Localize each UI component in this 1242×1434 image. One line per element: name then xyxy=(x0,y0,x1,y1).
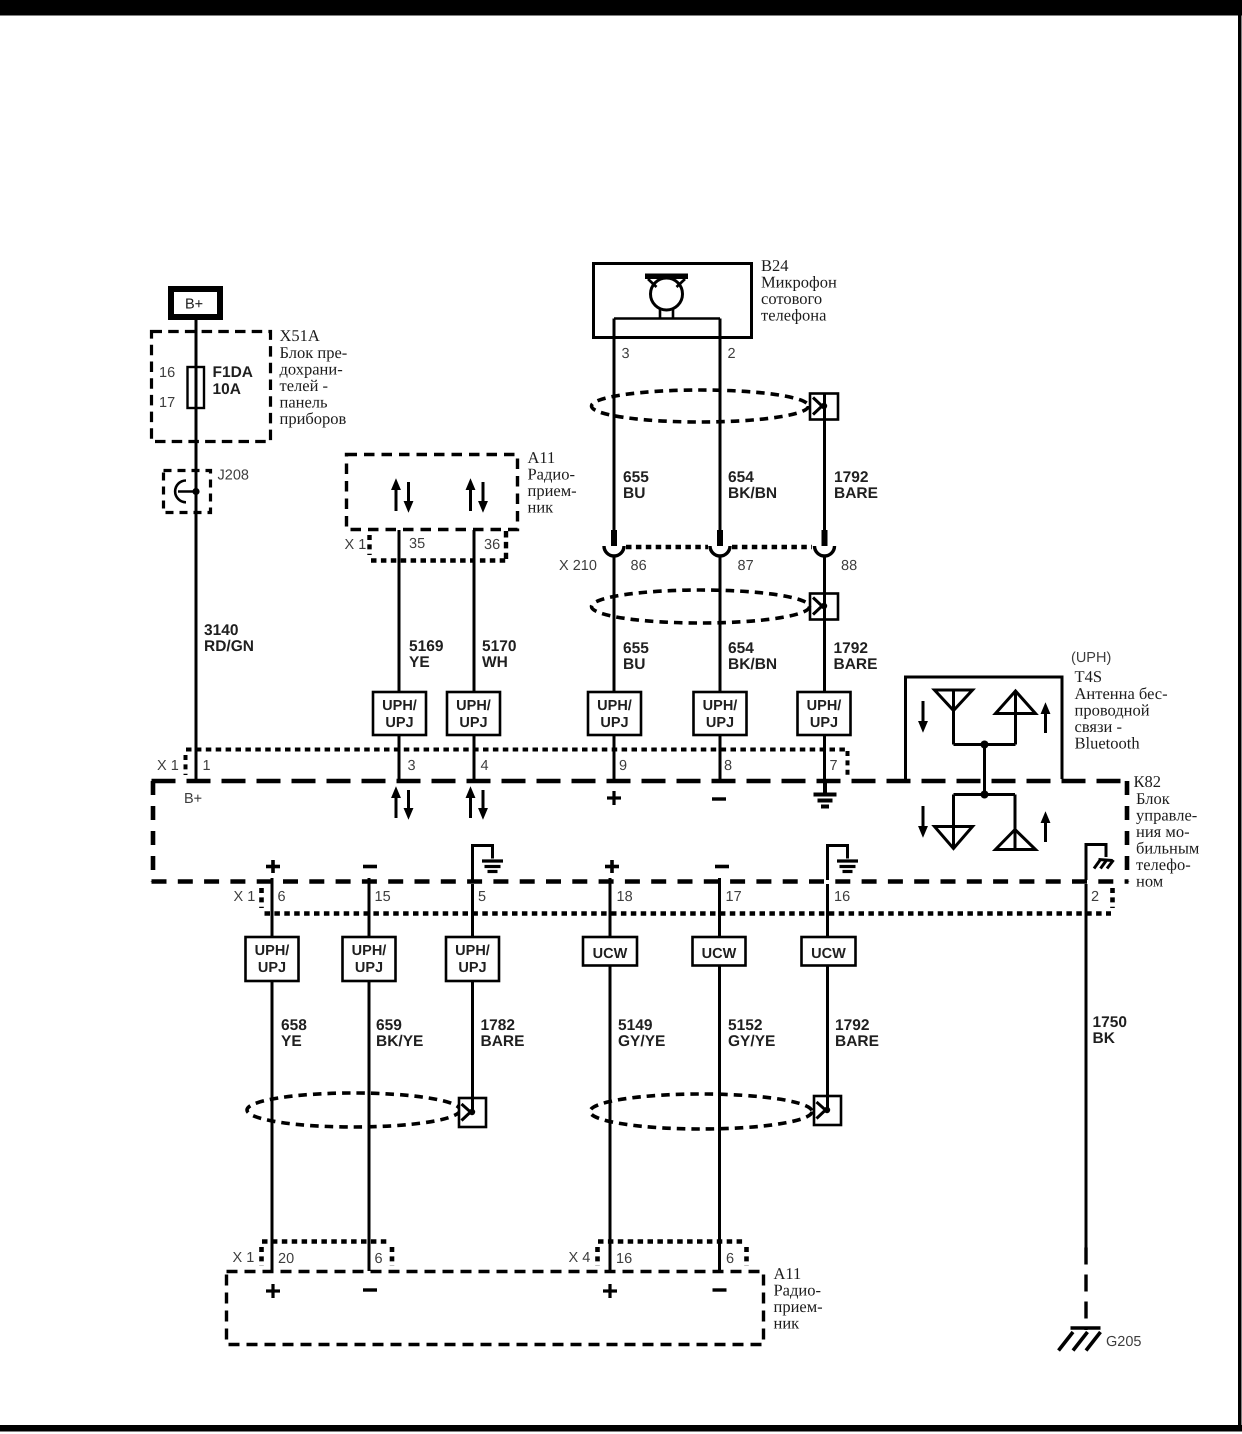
K82 arrows (pin 4) xyxy=(466,788,487,819)
svg-text:UPH/: UPH/ xyxy=(703,698,738,714)
ground hook symbol (pin 16) xyxy=(828,846,859,881)
svg-text:4: 4 xyxy=(481,758,489,774)
label T4S antenna xyxy=(1075,667,1168,753)
UPH/UPJ tag (wire 5170) xyxy=(447,692,500,735)
svg-text:659: 659 xyxy=(376,1017,402,1034)
connector X210 pin 86 xyxy=(604,530,624,556)
antenna feed line and junctions xyxy=(954,745,1016,795)
svg-text:17: 17 xyxy=(726,889,742,905)
svg-text:658: 658 xyxy=(281,1017,307,1034)
svg-text:2: 2 xyxy=(1091,889,1099,905)
right border line xyxy=(1238,0,1242,1431)
label K82 xyxy=(1134,772,1200,891)
svg-text:10A: 10A xyxy=(213,381,241,398)
T4S transmit antenna symbol (upper) xyxy=(996,691,1036,745)
svg-text:8: 8 xyxy=(724,758,732,774)
K82 arrows (pin 3) xyxy=(392,788,413,819)
wire 658 YE (K82 pin 6 to radio) xyxy=(271,878,274,1271)
shield ellipse (phone pair, right) xyxy=(590,1094,812,1129)
svg-text:5170: 5170 xyxy=(482,638,516,655)
svg-text:ном: ном xyxy=(1136,872,1164,891)
svg-text:Bluetooth: Bluetooth xyxy=(1075,734,1141,753)
svg-text:BK: BK xyxy=(1093,1030,1116,1047)
K82 receive antenna symbol (lower) xyxy=(935,795,973,849)
label A11 radio (bottom) xyxy=(774,1264,823,1333)
A11 bidirectional arrows (pin 35) xyxy=(392,480,413,512)
svg-text:ник: ник xyxy=(774,1314,801,1333)
wire 1782 BARE (K82 pin 5 shield drain) xyxy=(471,884,474,1112)
T4S up arrow (upper) xyxy=(1041,704,1049,734)
svg-text:6: 6 xyxy=(278,889,286,905)
svg-text:UPH/: UPH/ xyxy=(597,698,632,714)
antenna T4S (Bluetooth wireless antenna) xyxy=(906,677,1063,779)
svg-text:UPH/: UPH/ xyxy=(255,943,290,959)
svg-text:J208: J208 xyxy=(218,468,249,484)
ground symbol (pin 7) xyxy=(814,781,837,807)
svg-text:88: 88 xyxy=(841,558,857,574)
connector X4 of radio (bottom right) xyxy=(598,1242,747,1267)
svg-text:1792: 1792 xyxy=(834,640,868,657)
label B24 microphone cellular phone xyxy=(761,256,837,325)
svg-text:X 1: X 1 xyxy=(234,889,256,905)
svg-text:6: 6 xyxy=(375,1251,383,1267)
minus symbol (pin 17) xyxy=(715,865,729,869)
radio A11 (top) xyxy=(347,455,518,530)
svg-text:GY/YE: GY/YE xyxy=(728,1033,775,1050)
svg-text:5149: 5149 xyxy=(618,1017,653,1034)
svg-text:YE: YE xyxy=(281,1033,302,1050)
svg-text:15: 15 xyxy=(375,889,391,905)
UPH/UPJ tag (wire 655) xyxy=(588,692,641,735)
svg-text:16: 16 xyxy=(159,365,175,381)
svg-text:B+: B+ xyxy=(184,791,202,807)
svg-text:UCW: UCW xyxy=(593,946,628,962)
UCW tag (wire 5149) xyxy=(583,937,637,966)
plus symbol (radio pin 20) xyxy=(266,1284,280,1298)
svg-text:86: 86 xyxy=(631,558,647,574)
connector X210 pin 87 xyxy=(710,530,730,556)
svg-text:UPH/: UPH/ xyxy=(807,698,842,714)
wire 5169 YE (radio pin 35 to K82 pin 3) xyxy=(398,530,401,779)
svg-text:5: 5 xyxy=(478,889,486,905)
svg-text:UPJ: UPJ xyxy=(706,715,734,731)
shield drain box (left lower) xyxy=(459,1098,486,1127)
svg-text:1: 1 xyxy=(203,758,211,774)
plus symbol (pin 6) xyxy=(266,860,280,873)
wire 5170 WH (radio pin 36 to K82 pin 4) xyxy=(473,530,476,779)
wire 654 BK/BN (mic pin 2) xyxy=(719,319,722,531)
bottom border bar xyxy=(0,1425,1242,1432)
svg-text:UPJ: UPJ xyxy=(258,960,286,976)
svg-text:5152: 5152 xyxy=(728,1017,762,1034)
svg-text:GY/YE: GY/YE xyxy=(618,1033,665,1050)
UPH/UPJ tag (wire 1792) xyxy=(798,692,851,735)
svg-text:6: 6 xyxy=(726,1251,734,1267)
wire 1792 BARE (K82 pin 16 shield drain) xyxy=(826,884,829,1110)
wire 1750 BK (K82 pin 2 to G205) xyxy=(1085,884,1088,1248)
svg-text:3: 3 xyxy=(622,346,630,362)
svg-text:BARE: BARE xyxy=(481,1033,525,1050)
svg-text:(UPH): (UPH) xyxy=(1071,650,1111,666)
svg-text:UPH/: UPH/ xyxy=(352,943,387,959)
svg-text:UPJ: UPJ xyxy=(458,960,486,976)
svg-text:655: 655 xyxy=(623,469,649,486)
svg-text:UPJ: UPJ xyxy=(385,715,413,731)
plus symbol (radio pin 16) xyxy=(603,1284,617,1298)
svg-text:1792: 1792 xyxy=(834,469,868,486)
connector X1 of K82 (lower row) xyxy=(262,888,1113,914)
svg-text:2: 2 xyxy=(728,346,736,362)
ground G205 xyxy=(1059,1328,1101,1351)
svg-text:телефона: телефона xyxy=(761,306,827,325)
svg-text:BK/BN: BK/BN xyxy=(728,485,777,502)
svg-text:UCW: UCW xyxy=(702,946,737,962)
K82 transmit antenna symbol (lower) xyxy=(996,795,1036,850)
svg-text:18: 18 xyxy=(617,889,633,905)
svg-text:ник: ник xyxy=(528,498,555,517)
svg-text:F1DA: F1DA xyxy=(213,364,253,381)
wire 1792 BARE (below X210) xyxy=(823,556,826,692)
T4S down arrow (upper) xyxy=(919,701,927,732)
module K82 (mobile phone control module) xyxy=(152,781,1129,882)
svg-text:BK/YE: BK/YE xyxy=(376,1033,423,1050)
svg-text:YE: YE xyxy=(409,654,430,671)
svg-text:UPH/: UPH/ xyxy=(455,943,490,959)
UPH/UPJ tag (wire 1782) xyxy=(446,937,499,981)
wire 654 BK/BN (below X210) xyxy=(719,556,722,692)
connector X1 of K82 (upper row) xyxy=(186,750,849,779)
fuse block X51A xyxy=(152,332,271,442)
ground hook symbol (pin 5) xyxy=(473,846,504,881)
svg-text:UPH/: UPH/ xyxy=(456,698,491,714)
UCW tag (wire 5152) xyxy=(693,937,746,966)
svg-text:17: 17 xyxy=(159,395,175,411)
svg-text:1750: 1750 xyxy=(1093,1014,1127,1031)
svg-text:5169: 5169 xyxy=(409,638,444,655)
connector X1 of radio (bottom left) xyxy=(262,1242,393,1267)
minus symbol (pin 15) xyxy=(363,865,377,869)
svg-text:3140: 3140 xyxy=(204,622,238,639)
label X51A (fuse block - instrument panel) xyxy=(280,326,348,428)
svg-text:UPJ: UPJ xyxy=(459,715,487,731)
svg-text:X 1: X 1 xyxy=(233,1250,255,1266)
fuse F1DA 10A xyxy=(188,367,205,408)
UPH/UPJ tag (wire 654) xyxy=(694,692,747,735)
UPH/UPJ tag (wire 659) xyxy=(343,937,396,981)
svg-text:3: 3 xyxy=(408,758,416,774)
top border bar xyxy=(0,0,1242,16)
svg-text:BU: BU xyxy=(623,485,645,502)
shield drain box (right lower) xyxy=(814,1096,841,1125)
wire 5149 GY/YE (K82 pin 18 to radio) xyxy=(609,878,612,1271)
svg-text:BARE: BARE xyxy=(835,1033,879,1050)
K82 down arrow (lower) xyxy=(919,806,927,837)
svg-text:RD/GN: RD/GN xyxy=(204,638,254,655)
A11 bidirectional arrows (pin 36) xyxy=(466,480,487,512)
microphone B24 xyxy=(594,264,752,338)
svg-text:UPJ: UPJ xyxy=(810,715,838,731)
wire 655 BU (below X210) xyxy=(613,556,616,692)
radio A11 (bottom) xyxy=(227,1272,764,1345)
svg-text:UCW: UCW xyxy=(811,946,846,962)
UPH/UPJ tag (wire 658) xyxy=(246,937,299,981)
node B+ (battery feed box) xyxy=(171,289,220,317)
svg-text:B+: B+ xyxy=(185,297,203,313)
svg-text:BARE: BARE xyxy=(834,656,878,673)
svg-text:G205: G205 xyxy=(1106,1334,1141,1350)
svg-text:UPH/: UPH/ xyxy=(382,698,417,714)
plus symbol (pin 18) xyxy=(605,860,619,873)
svg-text:9: 9 xyxy=(619,758,627,774)
shield ellipse (mic pair, lower) xyxy=(592,590,810,623)
plus symbol (pin 9) xyxy=(607,791,621,805)
wire 655 BU (mic pin 3) xyxy=(613,319,616,531)
svg-text:1792: 1792 xyxy=(835,1017,869,1034)
wire 659 BK/YE (K82 pin 15 to radio) xyxy=(368,878,371,1271)
shield drain box (second) xyxy=(810,594,838,620)
svg-text:BU: BU xyxy=(623,656,645,673)
svg-text:36: 36 xyxy=(484,537,500,553)
wire from B+ through fuse F1DA to K82 pin 1 xyxy=(195,320,198,779)
connector X1 of A11 (pins 35,36) xyxy=(370,531,509,561)
svg-text:16: 16 xyxy=(834,889,850,905)
minus symbol (radio pin 6) xyxy=(363,1288,377,1291)
svg-text:654: 654 xyxy=(728,469,754,486)
chassis ground hook (pin 2) xyxy=(1086,845,1114,881)
shield drain box (upper) xyxy=(810,394,838,420)
wire 5152 GY/YE (K82 pin 17 to radio) xyxy=(718,878,721,1271)
svg-text:X 210: X 210 xyxy=(559,558,597,574)
svg-text:16: 16 xyxy=(616,1251,632,1267)
connector X210 pin 88 xyxy=(815,530,835,556)
UCW tag (wire 1792 lower) xyxy=(802,937,856,966)
svg-text:BK/BN: BK/BN xyxy=(728,656,777,673)
svg-text:87: 87 xyxy=(738,558,754,574)
svg-text:655: 655 xyxy=(623,640,649,657)
shield ellipse (radio pair, left) xyxy=(247,1093,460,1127)
svg-text:UPJ: UPJ xyxy=(355,960,383,976)
label A11 radio (top) xyxy=(528,448,577,517)
splice J208 xyxy=(164,468,249,513)
K82 up arrow (lower) xyxy=(1041,813,1049,843)
wires pins 3,4,9,8,7 down to K82 xyxy=(613,735,616,779)
UPH/UPJ tag (wire 5169) xyxy=(373,692,426,735)
svg-text:WH: WH xyxy=(482,654,508,671)
svg-text:20: 20 xyxy=(278,1251,294,1267)
svg-text:X 4: X 4 xyxy=(569,1250,591,1266)
svg-text:X 1: X 1 xyxy=(345,537,367,553)
svg-text:BARE: BARE xyxy=(834,485,878,502)
svg-text:35: 35 xyxy=(409,536,425,552)
minus symbol (pin 8) xyxy=(712,797,726,800)
shield ellipse (mic pair, upper) xyxy=(592,390,809,422)
wire 1792 BARE (shield drain) xyxy=(823,394,826,530)
X210 dotted link xyxy=(626,545,708,550)
svg-text:654: 654 xyxy=(728,640,754,657)
T4S receive antenna symbol (upper) xyxy=(935,690,973,745)
svg-text:7: 7 xyxy=(830,758,838,774)
svg-text:UPJ: UPJ xyxy=(600,715,628,731)
svg-text:X 1: X 1 xyxy=(157,758,179,774)
minus symbol (radio pin 6 X4) xyxy=(713,1288,727,1291)
svg-text:приборов: приборов xyxy=(280,409,347,428)
svg-text:1782: 1782 xyxy=(481,1017,515,1034)
